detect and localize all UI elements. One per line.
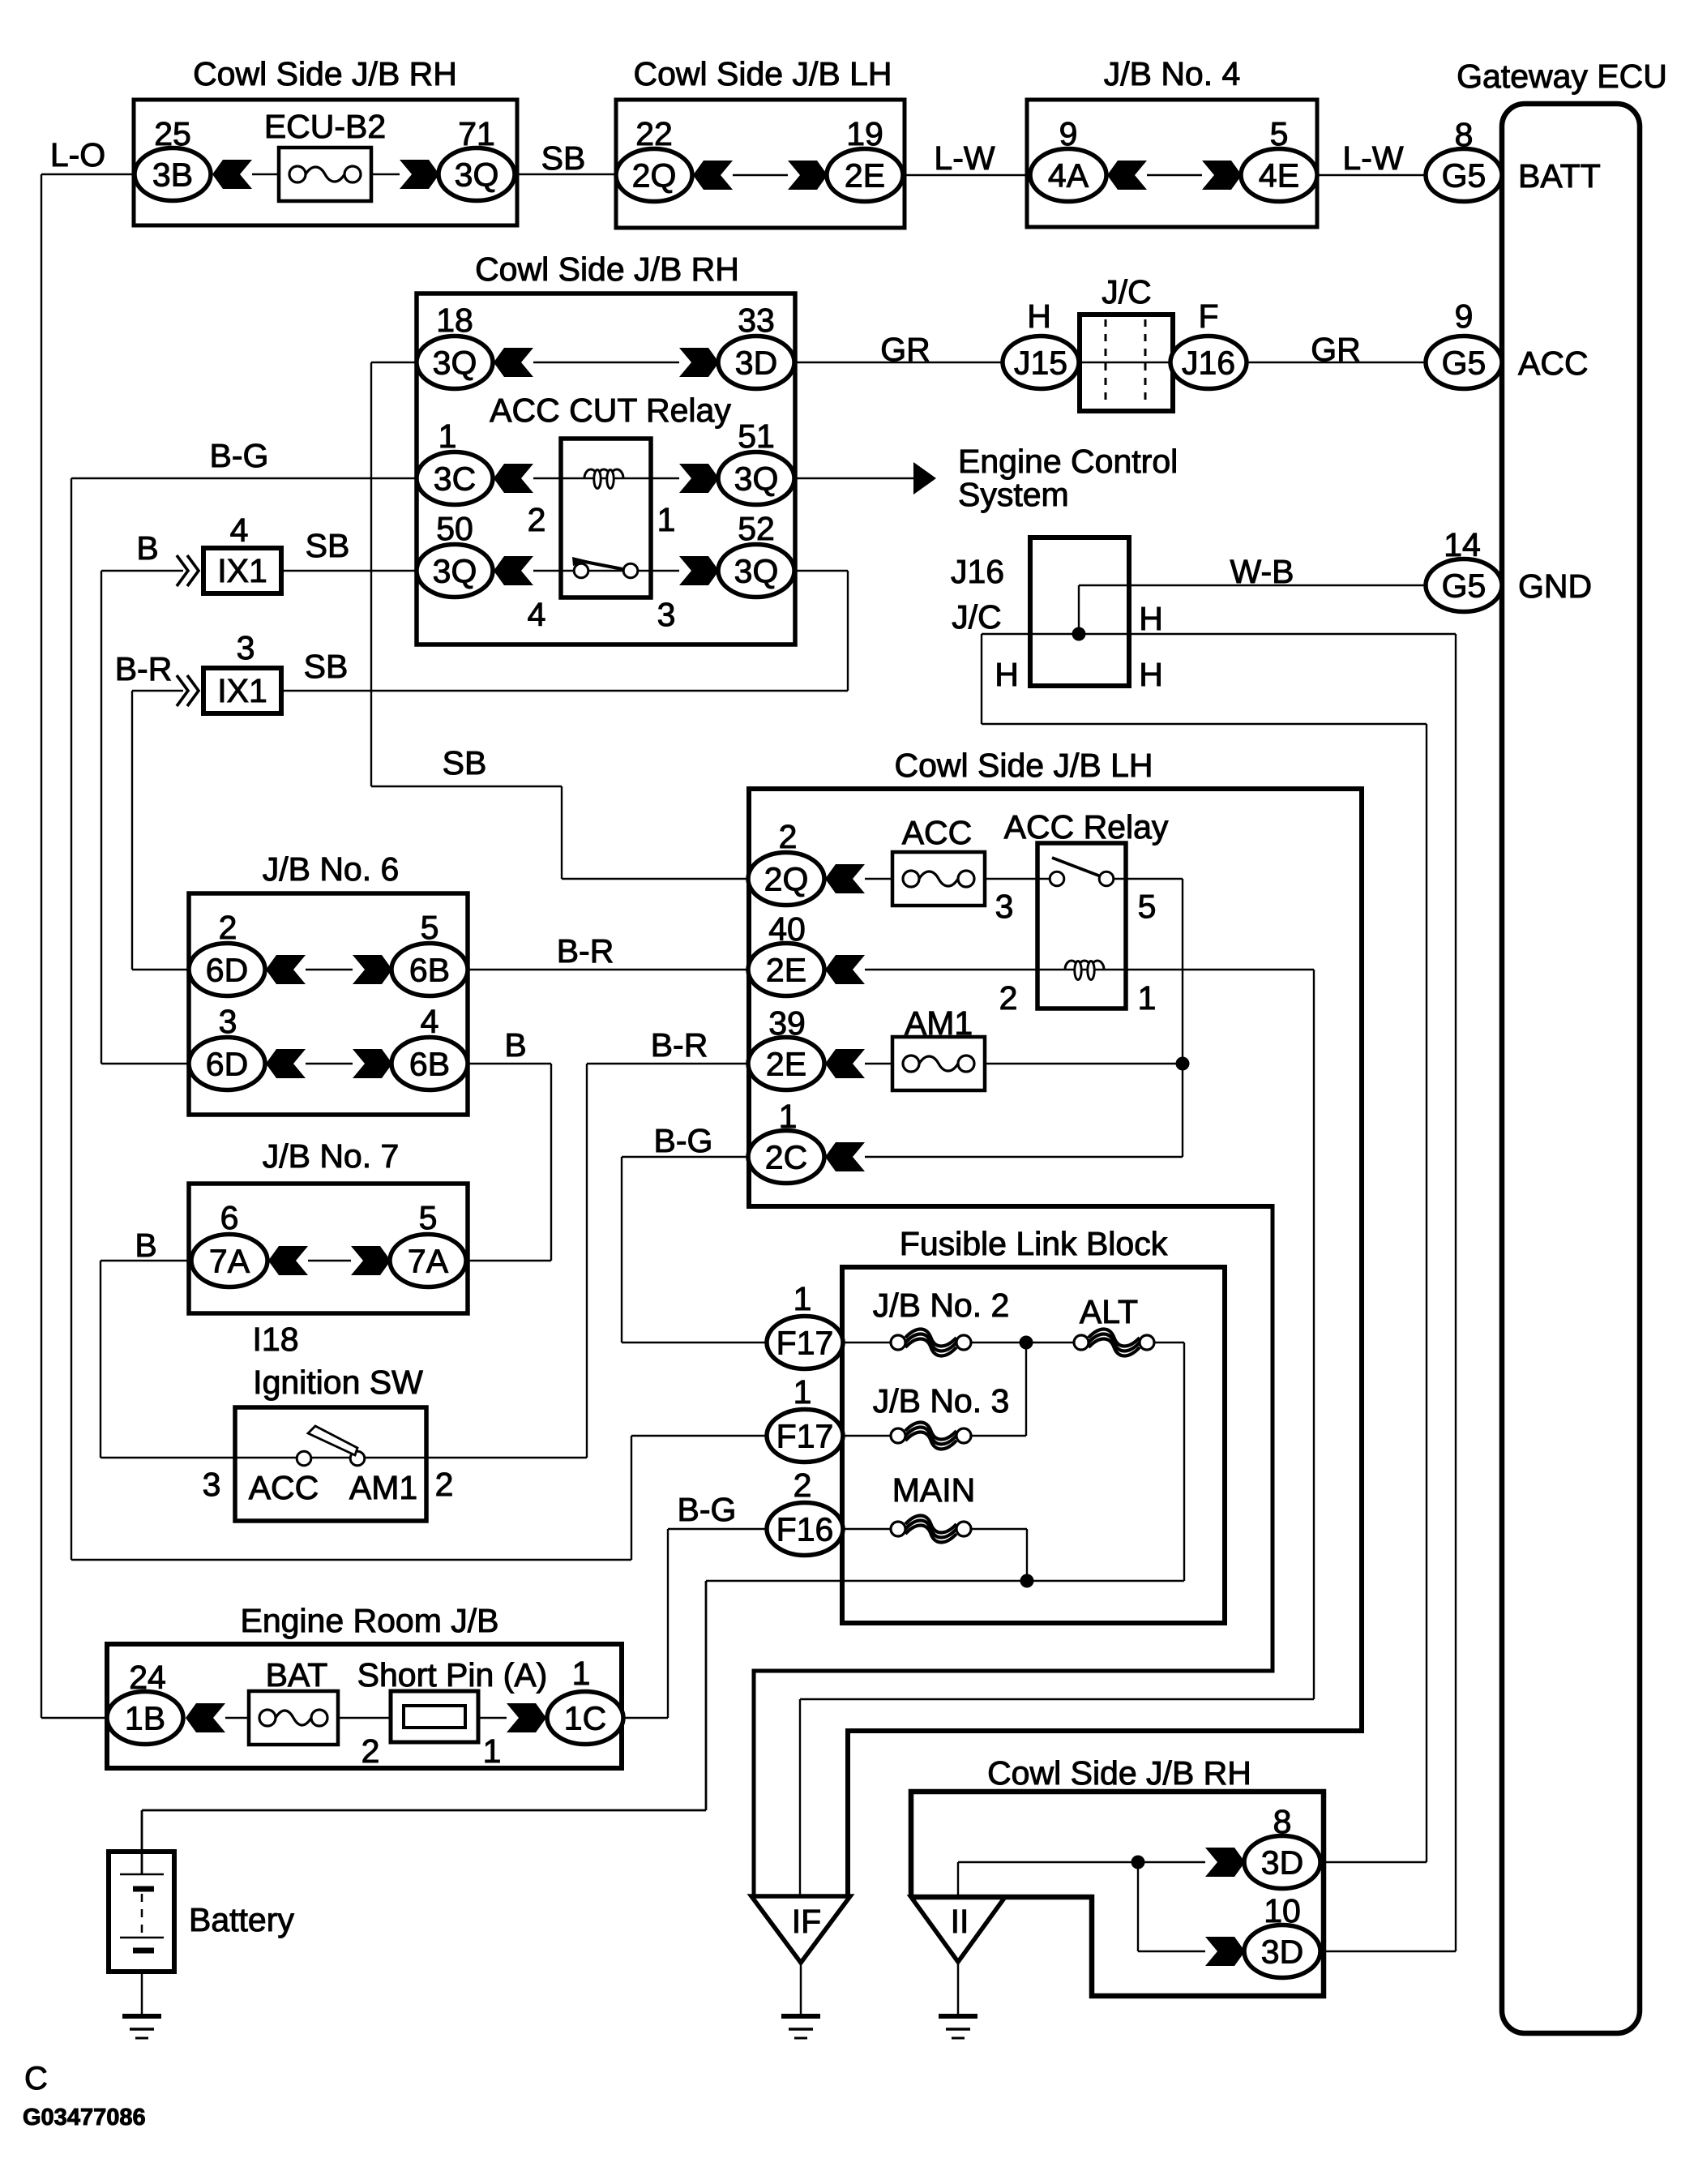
svg-text:6B: 6B: [409, 1046, 450, 1083]
svg-text:J16: J16: [951, 553, 1004, 590]
svg-text:1: 1: [779, 1098, 798, 1135]
svg-text:B-R: B-R: [651, 1026, 708, 1064]
svg-text:J/C: J/C: [952, 598, 1002, 636]
svg-text:3: 3: [995, 888, 1014, 925]
svg-text:50: 50: [436, 510, 473, 547]
svg-text:39: 39: [768, 1004, 806, 1042]
svg-text:3Q: 3Q: [455, 156, 499, 194]
svg-text:5: 5: [1270, 115, 1289, 152]
svg-text:2E: 2E: [766, 952, 806, 989]
svg-text:B: B: [504, 1026, 526, 1064]
svg-text:F16: F16: [776, 1511, 834, 1548]
svg-text:Cowl Side J/B LH: Cowl Side J/B LH: [633, 55, 892, 92]
svg-text:SB: SB: [306, 527, 350, 564]
svg-text:F17: F17: [776, 1325, 834, 1362]
svg-text:J/B No. 3: J/B No. 3: [873, 1382, 1010, 1420]
svg-text:Gateway ECU: Gateway ECU: [1457, 58, 1667, 95]
svg-text:24: 24: [129, 1659, 166, 1696]
svg-text:SB: SB: [443, 744, 487, 782]
svg-text:J/B No. 7: J/B No. 7: [263, 1137, 400, 1175]
svg-text:3Q: 3Q: [734, 460, 779, 498]
svg-text:2: 2: [361, 1732, 380, 1770]
svg-text:71: 71: [458, 115, 495, 152]
svg-text:1B: 1B: [125, 1700, 165, 1737]
svg-text:2: 2: [219, 909, 237, 946]
svg-text:8: 8: [1455, 116, 1474, 153]
svg-text:22: 22: [635, 115, 673, 152]
svg-text:B-R: B-R: [557, 932, 614, 970]
svg-text:25: 25: [154, 115, 191, 152]
svg-text:J15: J15: [1014, 345, 1067, 382]
svg-text:IX1: IX1: [217, 672, 267, 709]
svg-text:3B: 3B: [152, 156, 193, 194]
svg-text:2: 2: [435, 1466, 454, 1503]
svg-text:2Q: 2Q: [764, 861, 809, 898]
svg-text:1: 1: [794, 1373, 812, 1411]
svg-text:Cowl Side J/B RH: Cowl Side J/B RH: [987, 1754, 1251, 1792]
svg-text:Engine Room J/B: Engine Room J/B: [240, 1602, 498, 1639]
svg-text:G5: G5: [1442, 345, 1487, 382]
svg-text:7A: 7A: [209, 1243, 250, 1280]
svg-text:J/B No. 6: J/B No. 6: [263, 850, 400, 888]
svg-text:2E: 2E: [766, 1046, 806, 1083]
svg-text:51: 51: [738, 418, 775, 455]
svg-text:52: 52: [738, 510, 775, 547]
svg-text:3D: 3D: [1261, 1933, 1303, 1971]
svg-text:Ignition SW: Ignition SW: [253, 1364, 423, 1401]
svg-text:Cowl Side J/B RH: Cowl Side J/B RH: [193, 55, 457, 92]
svg-text:3Q: 3Q: [734, 553, 779, 590]
svg-text:C: C: [24, 2061, 48, 2096]
svg-text:2Q: 2Q: [632, 157, 677, 195]
svg-text:5: 5: [419, 1199, 438, 1236]
svg-text:4: 4: [528, 596, 546, 633]
svg-text:3Q: 3Q: [433, 345, 477, 382]
svg-text:1: 1: [483, 1732, 502, 1770]
svg-text:I18: I18: [253, 1321, 299, 1358]
svg-text:F: F: [1198, 298, 1218, 335]
svg-text:L-O: L-O: [50, 136, 105, 173]
svg-text:4: 4: [421, 1003, 439, 1040]
svg-text:7A: 7A: [408, 1243, 449, 1280]
svg-text:ACC: ACC: [1518, 345, 1589, 382]
svg-text:GR: GR: [1311, 331, 1361, 368]
svg-text:B: B: [135, 1227, 156, 1264]
svg-text:2: 2: [528, 501, 546, 538]
svg-text:J16: J16: [1182, 345, 1235, 382]
svg-text:6: 6: [220, 1199, 239, 1236]
svg-text:1: 1: [657, 501, 676, 538]
svg-text:8: 8: [1273, 1803, 1292, 1840]
svg-text:GR: GR: [880, 331, 930, 368]
svg-text:4A: 4A: [1048, 157, 1089, 195]
svg-text:4E: 4E: [1259, 157, 1299, 195]
svg-text:SB: SB: [304, 648, 349, 685]
svg-text:10: 10: [1264, 1892, 1301, 1929]
svg-text:H: H: [1139, 600, 1163, 637]
svg-text:GND: GND: [1518, 567, 1592, 605]
svg-text:3: 3: [203, 1466, 221, 1503]
svg-text:H: H: [1139, 656, 1163, 693]
svg-text:H: H: [1027, 298, 1051, 335]
svg-text:40: 40: [768, 910, 806, 948]
svg-text:J/C: J/C: [1102, 273, 1152, 310]
svg-text:G5: G5: [1442, 567, 1487, 605]
svg-text:3D: 3D: [735, 345, 777, 382]
svg-text:6D: 6D: [206, 1046, 248, 1083]
svg-text:1: 1: [1138, 979, 1157, 1017]
svg-text:3: 3: [237, 629, 255, 666]
svg-text:II: II: [951, 1903, 969, 1940]
svg-text:19: 19: [846, 115, 883, 152]
svg-text:ACC: ACC: [249, 1469, 319, 1506]
svg-text:AM1: AM1: [905, 1004, 973, 1042]
svg-text:G5: G5: [1442, 157, 1487, 195]
svg-text:2C: 2C: [765, 1139, 807, 1176]
svg-text:1: 1: [438, 418, 457, 455]
svg-text:1C: 1C: [564, 1700, 606, 1737]
svg-text:ACC CUT Relay: ACC CUT Relay: [490, 392, 731, 429]
svg-text:Cowl Side J/B RH: Cowl Side J/B RH: [475, 251, 739, 288]
svg-text:AM1: AM1: [349, 1469, 417, 1506]
svg-text:J/B No. 4: J/B No. 4: [1104, 55, 1241, 92]
svg-text:W-B: W-B: [1230, 553, 1294, 590]
svg-text:MAIN: MAIN: [892, 1471, 976, 1509]
svg-text:14: 14: [1444, 526, 1481, 563]
svg-text:BAT: BAT: [266, 1656, 328, 1694]
svg-text:L-W: L-W: [1342, 139, 1403, 177]
svg-text:9: 9: [1059, 115, 1078, 152]
svg-text:6B: 6B: [409, 952, 450, 989]
svg-text:2: 2: [779, 818, 798, 855]
svg-text:1: 1: [794, 1280, 812, 1317]
svg-text:Engine Control: Engine Control: [958, 443, 1178, 480]
svg-text:F17: F17: [776, 1418, 834, 1455]
svg-text:Fusible Link Block: Fusible Link Block: [900, 1225, 1168, 1262]
svg-text:B-R: B-R: [115, 650, 173, 687]
svg-text:3Q: 3Q: [433, 553, 477, 590]
svg-text:33: 33: [738, 302, 775, 339]
svg-text:9: 9: [1455, 298, 1474, 335]
svg-text:H: H: [995, 656, 1019, 693]
svg-text:B-G: B-G: [678, 1491, 737, 1528]
svg-text:System: System: [958, 476, 1069, 513]
svg-text:ACC Relay: ACC Relay: [1004, 808, 1169, 846]
svg-text:ECU-B2: ECU-B2: [264, 108, 386, 145]
svg-text:L-W: L-W: [934, 139, 995, 177]
svg-text:G03477086: G03477086: [23, 2105, 146, 2130]
svg-text:B-G: B-G: [654, 1122, 713, 1159]
svg-text:1: 1: [572, 1655, 591, 1692]
svg-text:2: 2: [999, 979, 1018, 1017]
svg-text:B: B: [136, 529, 158, 567]
svg-text:3: 3: [219, 1003, 237, 1040]
svg-text:5: 5: [1138, 888, 1157, 925]
svg-text:2: 2: [794, 1467, 812, 1504]
svg-text:ACC: ACC: [902, 814, 973, 851]
svg-text:ALT: ALT: [1080, 1293, 1138, 1330]
svg-text:3: 3: [657, 596, 676, 633]
svg-text:J/B No. 2: J/B No. 2: [873, 1287, 1010, 1324]
svg-text:5: 5: [421, 909, 439, 946]
svg-text:SB: SB: [541, 139, 586, 177]
svg-text:B-G: B-G: [210, 437, 269, 474]
svg-text:18: 18: [436, 302, 473, 339]
svg-text:4: 4: [230, 512, 249, 549]
svg-text:3D: 3D: [1261, 1844, 1303, 1882]
svg-text:Cowl Side J/B LH: Cowl Side J/B LH: [894, 747, 1153, 784]
svg-text:IX1: IX1: [217, 552, 267, 589]
svg-text:3C: 3C: [434, 460, 476, 498]
svg-text:IF: IF: [792, 1903, 821, 1940]
svg-text:2E: 2E: [845, 157, 885, 195]
svg-text:Short Pin (A): Short Pin (A): [357, 1656, 548, 1694]
svg-text:BATT: BATT: [1518, 157, 1601, 195]
svg-text:Battery: Battery: [189, 1901, 294, 1938]
svg-text:6D: 6D: [206, 952, 248, 989]
